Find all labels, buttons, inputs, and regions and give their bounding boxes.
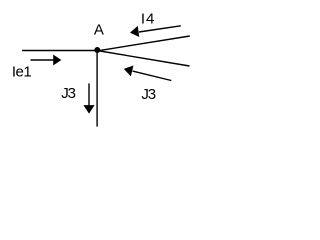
label A (node name) bbox=[94, 21, 104, 38]
label Ie1 bbox=[12, 64, 32, 81]
svg-text:A: A bbox=[94, 21, 104, 38]
label I4 bbox=[141, 11, 156, 28]
wire bottom branch from node A bbox=[96, 51, 98, 127]
label J3 (right current) bbox=[141, 86, 155, 103]
label J3 (bottom current) bbox=[61, 85, 75, 102]
current arrow J3 right (points up-left toward node) bbox=[124, 66, 172, 81]
wire left branch into node A bbox=[22, 50, 97, 52]
node A junction dot bbox=[94, 47, 100, 53]
svg-text:J3: J3 bbox=[61, 85, 75, 102]
svg-text:Ie1: Ie1 bbox=[12, 64, 32, 81]
current arrow I4 (points down-left toward node) bbox=[130, 26, 181, 37]
svg-text:J3: J3 bbox=[141, 86, 155, 103]
svg-text:I4: I4 bbox=[141, 11, 156, 28]
wire lower-right branch from node A bbox=[97, 51, 190, 67]
wire upper-right branch from node A bbox=[97, 36, 190, 51]
current arrow Ie1 (points right, into node) bbox=[31, 55, 62, 66]
current arrow J3 down (points down, along bottom branch) bbox=[83, 83, 94, 113]
